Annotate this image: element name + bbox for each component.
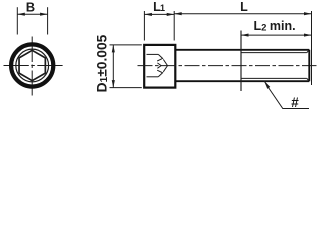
dimension L: right extension line	[311, 11, 313, 85]
end view: socket chamfer circle	[16, 49, 49, 82]
dimension D1: bottom arrowhead	[112, 80, 115, 88]
svg-text:B: B	[26, 0, 35, 15]
side view: head outline	[144, 45, 175, 88]
end view: horizontal centerline	[4, 65, 65, 67]
dimension L2: left arrowhead	[241, 34, 249, 37]
shank top outline	[175, 49, 309, 51]
svg-text:L2 min.: L2 min.	[254, 19, 296, 34]
socket hidden profile: top wall line	[147, 53, 159, 55]
screw tip end face	[308, 50, 310, 81]
socket hidden profile: top corner chevron	[157, 54, 162, 61]
dimension L1: left extension line	[143, 11, 145, 41]
dimension L1: right arrowhead	[167, 13, 175, 16]
end view: hex socket	[19, 50, 45, 80]
svg-text:L: L	[240, 0, 248, 14]
dimension B: dimension line	[17, 13, 47, 15]
thread root line top	[241, 52, 307, 54]
dimension L1: left arrowhead	[144, 13, 152, 16]
dimension B: left extension line	[16, 7, 18, 34]
end view: head outer circle	[11, 44, 53, 86]
end view: vertical centerline	[31, 37, 33, 96]
dimension L2: dimension line	[241, 34, 312, 36]
shank bottom outline	[175, 80, 309, 82]
tip chamfer bottom	[307, 78, 310, 81]
svg-text:#: #	[291, 95, 299, 110]
thread start / L2 extension line	[240, 31, 242, 92]
dimension D1: top extension line	[110, 44, 142, 46]
dimension L: right arrowhead	[304, 12, 312, 15]
tip chamfer top	[307, 50, 310, 53]
dimension L: dimension line	[174, 13, 311, 15]
socket hidden profile: bottom corner chevron	[157, 70, 162, 77]
dimension L2: right arrowhead	[304, 34, 312, 37]
dimension D1: top arrowhead	[112, 45, 115, 53]
dimension B: right extension line	[47, 7, 49, 34]
leader arrowhead	[264, 81, 270, 89]
dimension L: left arrowhead	[174, 12, 182, 15]
side view: screw centerline	[138, 65, 317, 67]
dimension D1: dimension line	[112, 45, 114, 88]
leader line for thread spec	[264, 81, 309, 109]
dimension L1: dimension line	[144, 13, 174, 15]
dimension B: right arrowhead	[40, 13, 48, 16]
dimension B: left arrowhead	[17, 13, 25, 16]
thread root line bottom	[241, 77, 307, 79]
svg-text:D1±0.005: D1±0.005	[94, 34, 110, 92]
socket hidden profile: bottom wall line	[147, 76, 159, 78]
socket hidden profile: cone chevron	[163, 59, 167, 71]
dimension L1: right extension line	[173, 11, 175, 41]
socket hidden profile: center point arrowhead	[157, 63, 161, 68]
dimension D1: bottom extension line	[110, 87, 142, 89]
